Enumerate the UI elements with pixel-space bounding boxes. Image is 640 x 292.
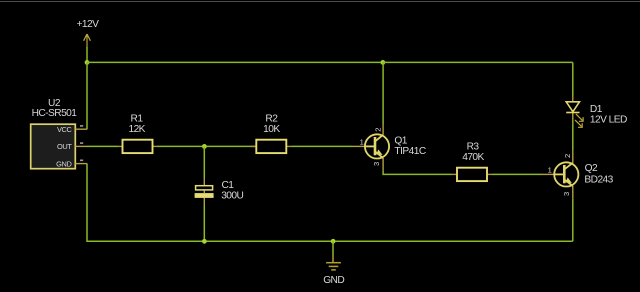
wire: bottom rail right part [204,240,572,242]
svg-text:VCC: VCC [57,125,73,134]
svg-text:R1: R1 [131,114,144,125]
wire: top rail left segment [87,61,383,63]
svg-text:+12V: +12V [76,19,99,30]
svg-text:10K: 10K [263,124,280,135]
wire: U2 GND down to bottom rail [87,164,204,242]
resistor R3 [452,168,493,181]
svg-text:BD243: BD243 [584,175,613,186]
U2 pin GND [56,159,87,168]
junction: GND tap on bottom rail [331,239,336,244]
svg-text:HC-SR501: HC-SR501 [32,108,78,119]
base pin [542,173,554,175]
svg-text:1: 1 [548,166,552,175]
junction: Q1 collector on top rail [381,60,386,65]
wire: right drop from top rail to D1 [572,62,574,96]
resistor R2 [251,140,292,153]
collector pin [382,124,384,135]
svg-text:Q2: Q2 [585,163,598,174]
wire: GND stem [332,241,334,255]
junction: C1 on bottom rail [202,239,207,244]
wire: Q1 emitter down then right to R3 [383,171,451,175]
wire: R1 to R2 (through C1 tap) [158,145,256,147]
junction: +12V / top rail / VCC drop [85,60,90,65]
svg-text:300U: 300U [221,191,243,202]
window top border line [0,1,640,2]
wire: C1 top lead [203,146,205,178]
junction: C1 tap [202,144,207,149]
diode D1 (LED) [566,96,583,127]
emitter pin [382,158,384,171]
svg-text:2: 2 [374,128,383,132]
svg-text:3: 3 [562,192,571,196]
emitter pin [572,186,574,199]
transistor Q2 [542,150,578,198]
wire: R2 to Q1 base [292,145,353,147]
component U2 HC-SR501 body [31,124,76,169]
svg-text:R2: R2 [265,114,278,125]
svg-text:3: 3 [372,162,381,166]
wire: D1 cathode down to Q2 collector [572,124,574,150]
wire: U2 OUT to R1 [87,145,118,147]
svg-text:1: 1 [360,138,364,147]
svg-text:GND: GND [323,275,344,286]
wire: +12V stem down to top rail [86,47,88,62]
svg-text:TIP41C: TIP41C [394,146,425,157]
svg-text:C1: C1 [222,180,235,191]
power symbol +12V arrow [84,34,91,47]
svg-text:OUT: OUT [57,142,72,151]
wire: top rail right segment [383,61,573,63]
U2 pin OUT [57,142,87,151]
base pin [353,145,366,147]
wire: left drop from top rail to U2 VCC [86,62,88,129]
wire: R3 to Q2 base [492,173,542,175]
svg-text:12K: 12K [128,124,145,135]
svg-text:12V LED: 12V LED [590,114,627,125]
svg-text:R3: R3 [467,142,480,153]
svg-text:2: 2 [563,154,572,158]
svg-text:Q1: Q1 [394,136,407,147]
wire: C1 bottom lead to bottom rail [203,206,205,242]
collector pin [572,150,574,162]
resistor R1 [118,140,158,153]
U2 pin VCC [57,125,87,134]
wire: Q2 emitter down to bottom rail [572,199,574,241]
wire: Q1 collector up to top rail [382,62,384,124]
transistor Q1 [353,124,390,171]
ground symbol [326,255,341,270]
svg-text:GND: GND [56,159,71,168]
svg-text:470K: 470K [462,152,484,163]
capacitor C1 [195,178,214,206]
